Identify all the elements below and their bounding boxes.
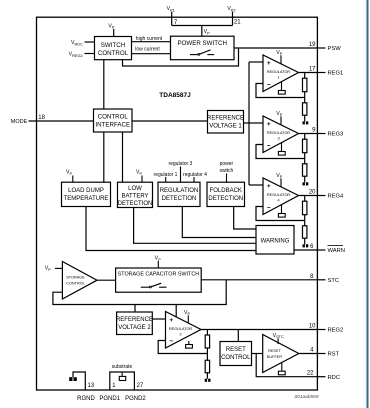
ground (divider regulator 4) [303,244,305,247]
block REFERENCE VOLTAGE 2 [117,312,153,335]
svg-text:REG1: REG1 [328,71,344,77]
svg-text:22: 22 [307,371,314,377]
svg-text:DETECTION: DETECTION [118,201,153,207]
ground (divider regulator 3) [303,182,305,185]
svg-text:VP1: VP1 [167,6,175,12]
svg-text:RDC: RDC [328,375,341,381]
svg-text:18: 18 [38,115,45,121]
resistor divider regulator 4 [304,196,306,202]
resistor divider regulator 3 [304,134,306,140]
svg-text:INTERFACE: INTERFACE [95,122,130,129]
svg-text:REFERENCE: REFERENCE [207,115,244,121]
svg-text:REG3: REG3 [328,132,344,138]
svg-text:VP: VP [155,256,161,262]
wire PSW output (pin 19) [234,47,317,49]
substrate symbol [119,376,125,380]
block FOLDBACK DETECTION [207,182,245,206]
ground (regulator 3) [281,143,283,152]
wire VP regulator 1 [280,55,282,64]
block SWITCH CONTROL [95,37,132,60]
svg-text:REGULATOR: REGULATOR [267,131,291,135]
wire RDC (pin 22) [256,354,317,377]
svg-text:SWITCH: SWITCH [101,42,125,49]
wire regulator 4 sense [193,177,195,182]
svg-text:VP: VP [45,266,51,272]
svg-text:27: 27 [137,383,144,389]
wire VP to power switch [201,26,203,37]
svg-text:20: 20 [309,189,316,195]
svg-text:VOLTAGE 1: VOLTAGE 1 [209,123,242,129]
svg-text:VP: VP [276,111,282,117]
wire pin21 [232,12,234,26]
svg-text:−: − [169,338,173,345]
svg-text:+: + [267,60,271,67]
svg-text:STORAGE: STORAGE [66,276,85,280]
svg-text:1: 1 [277,76,279,80]
svg-text:RESET: RESET [226,347,246,353]
wire output regulator 4 (pin 20) [299,195,318,197]
svg-text:switch: switch [219,168,233,174]
wire plus input regulator 3 [249,122,263,124]
svg-text:VP2: VP2 [227,6,235,12]
switch symbol (storage switch) [141,286,150,288]
svg-text:regulator 4: regulator 4 [183,172,207,178]
chip outline TDA8587J [37,17,318,390]
svg-text:17: 17 [309,66,316,72]
wire RGND (pin 13) [73,372,85,390]
wire reset control to reset buffer [252,353,263,355]
svg-text:VP: VP [276,50,282,56]
wire VRDC stub [85,41,95,43]
svg-text:PSW: PSW [328,46,342,52]
svg-text:+: + [267,183,271,190]
wire feedback regulator 4 [256,207,305,221]
svg-text:VP: VP [204,29,210,35]
wire STC to regulator 2 [175,305,177,318]
op-amp REGULATOR 1 [263,55,299,92]
svg-text:PGND2: PGND2 [125,396,146,402]
svg-text:RST: RST [328,352,340,358]
svg-text:21: 21 [234,20,241,26]
svg-text:−: − [267,142,271,149]
wire WARN output (pin 6) [294,249,317,251]
svg-text:CONTROL: CONTROL [221,355,251,361]
wire STC output (pin 8) [201,279,317,281]
switch symbol (power switch) [190,54,198,56]
svg-text:2: 2 [179,333,181,337]
wire RST output (pin 4) [299,353,318,355]
svg-text:10: 10 [309,323,316,329]
wire VP load dump [72,176,74,183]
svg-text:REGULATOR: REGULATOR [169,327,193,331]
wire foldback to warning [234,207,256,230]
svg-text:VP: VP [276,173,282,179]
wire VP regulator 3 [280,116,282,125]
op-amp REGULATOR 4 [263,178,299,215]
block WARNING [256,226,294,255]
wire VP storage switch [157,261,159,268]
buffer STORAGE CONTROL [62,262,97,300]
block CONTROL INTERFACE [94,109,133,132]
svg-text:power: power [220,161,234,167]
svg-text:MODE: MODE [11,119,28,125]
svg-text:19: 19 [309,42,316,48]
block LOAD DUMP TEMPERATURE [62,182,111,206]
svg-text:RGND: RGND [77,396,95,402]
svg-text:+: + [267,121,271,128]
ground (reset buffer) [281,363,283,371]
ground (regulator 2) [188,341,190,345]
wire reference rail [244,122,250,124]
svg-text:low current: low current [135,46,160,52]
wire feedback regulator 1 [256,84,305,98]
wire regulator 3 sense [180,167,182,183]
svg-text:POWER SWITCH: POWER SWITCH [177,40,227,47]
svg-text:4: 4 [277,199,279,203]
svg-text:VREG2: VREG2 [69,52,83,58]
buffer RESET BUFFER [263,335,299,373]
svg-text:REFERENCE: REFERENCE [116,317,153,323]
wire feedback regulator 3 [256,145,305,159]
ground (divider regulator 1) [303,121,305,124]
svg-text:regulator 3: regulator 3 [168,161,192,167]
svg-text:DETECTION: DETECTION [208,196,243,202]
ground (regulator 1) [281,82,283,91]
svg-text:PGND1: PGND1 [99,396,120,402]
wire high current [132,41,171,43]
block POWER SWITCH [171,36,235,60]
wire output regulator 1 (pin 17) [299,72,318,74]
wire VSTC [277,338,279,344]
wire VP regulator 4 [280,178,282,187]
wire STC to reference voltage 2 [134,305,136,313]
block LOW BATTERY DETECTION [118,182,153,207]
wire low current [132,53,171,55]
svg-text:REG2: REG2 [328,328,344,334]
svg-text:VP: VP [66,170,72,176]
svg-text:high current: high current [136,36,163,42]
wire pin7 [171,12,173,26]
svg-text:VP: VP [136,170,142,176]
wire to load dump [103,132,105,182]
svg-text:LOW: LOW [128,186,142,192]
wire storage control out [97,279,116,281]
block REFERENCE VOLTAGE 1 [208,111,244,134]
svg-text:13: 13 [88,383,95,389]
svg-text:VRDC: VRDC [71,40,83,46]
wire control interface to reference voltage 1 [132,120,208,122]
wire regulation to warning [182,207,256,238]
svg-text:RESET: RESET [268,349,281,353]
wire VP bar [172,25,233,27]
svg-text:VP: VP [108,23,114,29]
svg-text:STORAGE CAPACITOR SWITCH: STORAGE CAPACITOR SWITCH [118,271,200,277]
wire low battery to warning [134,208,256,244]
svg-text:+: + [169,317,173,324]
svg-text:−: − [267,81,271,88]
wire load dump to warning [86,207,256,251]
ground (divider regulator 2) [205,379,207,382]
svg-text:DETECTION: DETECTION [162,196,197,202]
svg-text:−: − [267,204,271,211]
wire VP regulator 2 [187,315,189,322]
resistor divider regulator 2 [206,330,208,336]
wire MODE [29,120,94,122]
svg-text:CONTROL: CONTROL [98,114,129,121]
wire VP to switch control [113,29,115,37]
svg-text:substrate: substrate [112,364,133,370]
op-amp REGULATOR 3 [263,116,299,153]
wire plus input regulator 4 [249,184,263,186]
svg-text:REGULATOR: REGULATOR [267,70,291,74]
ground (RGND) [69,377,72,381]
block RESET CONTROL [220,342,252,366]
svg-text:REGULATOR: REGULATOR [267,193,291,197]
wire STC feedback loop [53,280,226,305]
wire feedback regulator 2 [158,341,207,354]
svg-text:BATTERY: BATTERY [121,194,148,200]
wire power switch sense [123,48,239,66]
svg-text:WARNING: WARNING [261,238,290,244]
wire power switch sense stub [226,174,228,183]
wire switch control to control interface [103,60,105,109]
wire plus input regulator 1 [249,61,263,63]
svg-text:WARN: WARN [328,248,346,254]
wire VP low battery [141,176,143,183]
block STORAGE CAPACITOR SWITCH [116,268,202,292]
wire output regulator 3 (pin 9) [299,133,318,135]
block REGULATION DETECTION [158,182,200,206]
wire output regulator 2 (pin 10) [201,329,317,331]
wire regulator 2 to reset control [237,330,239,342]
svg-text:TDA8587J: TDA8587J [159,92,191,99]
wire ref2 to regulator 2 [152,318,165,320]
svg-text:VP: VP [184,310,190,316]
svg-text:BUFFER: BUFFER [267,355,282,359]
svg-text:CONTROL: CONTROL [66,281,85,285]
svg-text:001aab559: 001aab559 [294,394,318,400]
wire to low battery [122,132,124,182]
svg-text:FOLDBACK: FOLDBACK [210,188,242,194]
wire VREG2 stub [85,53,95,55]
wire regulator 1 sense [165,177,167,182]
svg-text:VSTC: VSTC [273,333,284,339]
svg-text:VOLTAGE 2: VOLTAGE 2 [118,325,151,331]
op-amp REGULATOR 2 [166,312,202,349]
wire substrate (pins 1, 27) [110,372,135,390]
wire VP storage control [55,267,62,269]
ground (regulator 4) [281,205,283,214]
resistor divider regulator 1 [304,73,306,79]
svg-text:REG4: REG4 [328,194,345,200]
svg-text:STC: STC [328,278,340,284]
svg-text:CONTROL: CONTROL [98,50,129,57]
svg-text:regulator 1: regulator 1 [154,172,178,178]
svg-text:LOAD DUMP: LOAD DUMP [68,188,104,194]
svg-text:TEMPERATURE: TEMPERATURE [64,196,109,202]
svg-text:REGULATION: REGULATION [160,188,199,194]
svg-text:3: 3 [277,137,279,141]
